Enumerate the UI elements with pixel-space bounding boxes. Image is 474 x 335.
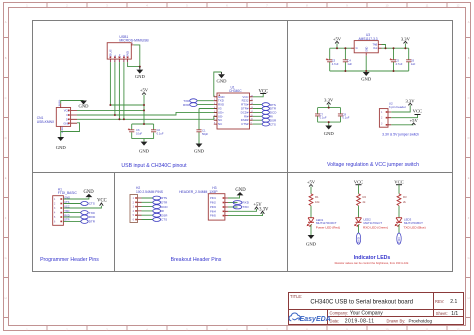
svg-text:CTS#: CTS# — [241, 122, 249, 126]
svg-text:C3: C3 — [332, 58, 336, 62]
svg-text:R2: R2 — [363, 195, 367, 199]
svg-text:GND: GND — [139, 148, 150, 153]
svg-text:A: A — [468, 20, 470, 24]
svg-text:PIN5: PIN5 — [210, 214, 216, 218]
svg-text:C5: C5 — [396, 58, 400, 62]
svg-text:Breakout Header Pins: Breakout Header Pins — [171, 257, 222, 263]
svg-text:C1: C1 — [202, 129, 206, 133]
svg-text:H: H — [468, 296, 470, 300]
svg-text:Programmer Header Pins: Programmer Header Pins — [40, 257, 99, 263]
svg-text:2019-08-11: 2019-08-11 — [345, 319, 375, 325]
svg-text:Drawn By:: Drawn By: — [387, 318, 406, 323]
svg-text:+5V: +5V — [410, 118, 419, 123]
svg-text:4.7uF: 4.7uF — [396, 62, 403, 66]
svg-text:10uF: 10uF — [136, 132, 142, 136]
svg-text:Indicator LEDs: Indicator LEDs — [354, 255, 391, 261]
svg-text:0.1uF: 0.1uF — [343, 116, 350, 120]
svg-text:10k: 10k — [315, 200, 320, 204]
svg-text:CTS: CTS — [270, 122, 276, 126]
svg-text:EasyEDA: EasyEDA — [300, 316, 331, 323]
svg-text:G: G — [5, 256, 7, 260]
svg-text:RXD: RXD — [183, 103, 190, 107]
svg-text:TXD: TXD — [89, 211, 96, 215]
svg-text:GND: GND — [306, 241, 317, 246]
svg-text:+5V: +5V — [333, 36, 342, 41]
svg-text:50pF: 50pF — [202, 132, 208, 136]
svg-text:C6: C6 — [136, 128, 140, 132]
svg-text:3.3V: 3.3V — [405, 98, 415, 103]
svg-text:1/1: 1/1 — [451, 311, 458, 317]
svg-text:VCC: VCC — [354, 180, 363, 185]
svg-text:RXD: RXD — [89, 215, 96, 219]
svg-text:TXD LED (Blue): TXD LED (Blue) — [404, 226, 426, 230]
svg-text:3 pin header: 3 pin header — [389, 105, 406, 109]
svg-text:+5V: +5V — [307, 180, 316, 185]
svg-text:TXD: TXD — [242, 205, 249, 209]
svg-text:B: B — [468, 56, 470, 60]
svg-text:TXD: TXD — [397, 237, 401, 243]
svg-text:VCC: VCC — [394, 180, 403, 185]
svg-text:CH340C USB to Serial breakout: CH340C USB to Serial breakout board — [310, 300, 413, 306]
svg-text:D: D — [5, 136, 7, 140]
svg-text:FTDI_BASIC: FTDI_BASIC — [58, 191, 78, 195]
svg-text:PIN1: PIN1 — [210, 196, 216, 200]
svg-text:CTS: CTS — [89, 202, 95, 206]
svg-text:PIN3: PIN3 — [210, 205, 216, 209]
svg-text:VCC: VCC — [97, 199, 107, 204]
svg-text:GND: GND — [235, 188, 246, 193]
svg-text:4.7uF: 4.7uF — [332, 62, 339, 66]
svg-text:CTS: CTS — [64, 200, 69, 204]
svg-text:RXD LED (Green): RXD LED (Green) — [363, 226, 388, 230]
svg-text:R3: R3 — [403, 195, 407, 199]
svg-text:MICROS-MIMIUSB: MICROS-MIMIUSB — [119, 38, 149, 42]
svg-text:GND: GND — [217, 79, 228, 84]
svg-text:C6: C6 — [411, 58, 415, 62]
svg-text:VCC: VCC — [258, 90, 268, 95]
svg-text:GND: GND — [324, 131, 335, 136]
svg-text:DTR: DTR — [64, 218, 69, 222]
svg-text:E: E — [5, 176, 7, 180]
svg-text:D: D — [468, 136, 470, 140]
svg-text:PIN4: PIN4 — [210, 209, 216, 213]
svg-text:GND: GND — [194, 148, 205, 153]
svg-text:GND: GND — [366, 46, 368, 51]
svg-text:GND: GND — [361, 77, 372, 82]
svg-text:Resistor values can be control: Resistor values can be control the brigh… — [335, 261, 409, 265]
svg-text:+5V: +5V — [140, 88, 149, 93]
svg-text:RXD: RXD — [242, 201, 249, 205]
svg-text:0.1uF: 0.1uF — [157, 132, 164, 136]
svg-text:USB input & CH340C pinout: USB input & CH340C pinout — [121, 163, 187, 169]
svg-text:TXD: TXD — [64, 209, 69, 213]
svg-text:DTR: DTR — [89, 220, 96, 224]
svg-text:TAB: TAB — [372, 43, 377, 47]
svg-text:Proxhotdog: Proxhotdog — [409, 319, 433, 324]
svg-text:MHT1170GCT: MHT1170GCT — [364, 221, 383, 225]
svg-text:C: C — [5, 96, 7, 100]
svg-text:R1: R1 — [315, 195, 319, 199]
svg-text:C: C — [468, 96, 470, 100]
svg-text:B: B — [5, 56, 7, 60]
svg-text:MHT1170CRCT: MHT1170CRCT — [316, 221, 337, 225]
svg-text:H: H — [5, 296, 7, 300]
svg-text:1uF: 1uF — [347, 62, 352, 66]
svg-text:SHELL: SHELL — [62, 125, 64, 133]
svg-text:C4: C4 — [347, 58, 351, 62]
svg-text:Your Company: Your Company — [350, 311, 383, 317]
svg-text:MHT170UBCT: MHT170UBCT — [404, 221, 423, 225]
svg-text:USB-KMNX: USB-KMNX — [37, 120, 55, 124]
svg-text:RXD: RXD — [64, 213, 70, 217]
svg-text:GND: GND — [79, 104, 90, 109]
svg-text:3.3V: 3.3V — [324, 97, 334, 102]
svg-text:C8: C8 — [343, 112, 347, 116]
svg-text:1uF: 1uF — [411, 62, 416, 66]
svg-text:Company:: Company: — [330, 310, 349, 315]
svg-text:G: G — [468, 256, 470, 260]
svg-text:0.1uF: 0.1uF — [320, 116, 327, 120]
svg-text:C2: C2 — [157, 128, 161, 132]
svg-text:VCC: VCC — [413, 108, 422, 113]
svg-text:CH340C: CH340C — [229, 89, 242, 93]
svg-text:Date:: Date: — [330, 318, 340, 323]
svg-text:RXD: RXD — [357, 237, 361, 243]
svg-text:PIN2: PIN2 — [210, 201, 216, 205]
svg-text:100 2.54MM PINS: 100 2.54MM PINS — [136, 190, 164, 194]
svg-text:E: E — [468, 176, 470, 180]
svg-text:Voltage regulation & VCC jumpe: Voltage regulation & VCC jumper switch — [327, 162, 419, 168]
svg-text:GND: GND — [64, 195, 70, 199]
svg-text:2.1: 2.1 — [450, 299, 457, 305]
svg-text:C7: C7 — [320, 112, 324, 116]
svg-text:TITLE:: TITLE: — [290, 294, 302, 299]
svg-text:3.3V & 5V jumper switch: 3.3V & 5V jumper switch — [382, 132, 419, 136]
svg-text:GND: GND — [135, 74, 146, 79]
svg-text:A: A — [5, 20, 7, 24]
svg-text:3.3V: 3.3V — [259, 208, 269, 213]
svg-text:Power LED (Red): Power LED (Red) — [316, 226, 340, 230]
svg-text:NC: NC — [218, 122, 222, 126]
svg-text:Sheet:: Sheet: — [436, 311, 448, 316]
svg-text:GND: GND — [56, 145, 67, 150]
svg-text:Out: Out — [373, 46, 377, 50]
svg-text:CTS: CTS — [161, 218, 167, 222]
svg-text:REV:: REV: — [435, 299, 444, 304]
svg-text:3.3V: 3.3V — [401, 36, 411, 41]
svg-text:VCC: VCC — [64, 204, 70, 208]
